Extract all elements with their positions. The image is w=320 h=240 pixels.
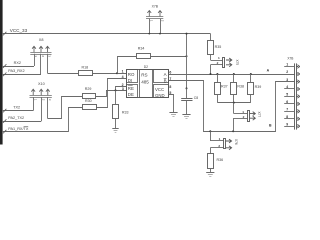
wire B from pin7 <box>169 81 295 132</box>
wire X8 pin2 down <box>40 54 42 75</box>
svg-text:A: A <box>164 72 167 77</box>
arrow X7B pin 8 <box>296 117 300 121</box>
wire VCC_33 rail <box>2 33 211 35</box>
wire X7A pin2 to VCC rail <box>160 19 162 34</box>
svg-text:7: 7 <box>286 108 288 112</box>
resistor R39 <box>248 74 254 103</box>
wire RX2 <box>2 66 34 68</box>
wire X10 pin3 down <box>47 97 49 118</box>
wire X7B pin 8 stub <box>284 118 294 120</box>
wire R29 left lead down to X10 pin3 run <box>48 97 83 119</box>
arrow X7B pin 1 <box>296 65 300 69</box>
junction dot VCC rail <box>186 33 188 35</box>
arrow X7B pin 3 <box>296 80 300 84</box>
svg-text:2: 2 <box>286 70 288 74</box>
connector X77 2-pin <box>233 110 255 122</box>
svg-text:X7B: X7B <box>287 57 293 61</box>
wire chip pin5 GND <box>169 95 174 113</box>
svg-text:X10: X10 <box>38 82 45 86</box>
junction dots on A rail <box>210 73 212 75</box>
junction dots on B rail <box>209 130 211 132</box>
connector X8 3-pin <box>30 46 51 57</box>
svg-text:X77: X77 <box>257 112 261 118</box>
connector X75 2-pin <box>211 56 232 68</box>
junction dots X7A on rail <box>148 33 150 35</box>
resistor R38 <box>231 74 237 103</box>
wire X10 pin2 down <box>41 97 43 121</box>
wire X8 pin3 down to RO run <box>47 54 49 74</box>
svg-text:GND: GND <box>155 93 165 98</box>
svg-text:1: 1 <box>122 69 124 73</box>
wire R34 right lead to VCC vertical <box>150 56 187 58</box>
wire X77 pin1 up to join line <box>233 103 235 114</box>
svg-text:X75: X75 <box>235 60 239 66</box>
ground R33 <box>112 128 118 130</box>
connector X10 3-pin <box>30 89 53 101</box>
svg-text:C8: C8 <box>194 96 198 100</box>
svg-text:PA3_RX2: PA3_RX2 <box>8 69 24 73</box>
wire chip pin4 DI <box>97 79 127 108</box>
wire R30 left lead down to PA1 net <box>69 108 83 132</box>
svg-text:B: B <box>164 78 167 83</box>
arrow X7B pin 9 <box>296 124 300 128</box>
wire TX2 <box>2 110 33 112</box>
wire R34 left lead down to RO <box>118 57 137 74</box>
resistor R30 <box>83 105 97 110</box>
junction dot RE-DE <box>115 89 117 91</box>
wire X7B pin 7 stub <box>284 111 294 113</box>
junction dot R34-VCC <box>186 55 188 57</box>
svg-text:R36: R36 <box>217 158 224 162</box>
resistor R35 <box>208 34 214 60</box>
wire chip pin2 RE <box>116 87 127 91</box>
wire X7B pin 4 stub <box>284 88 294 90</box>
svg-text:485: 485 <box>141 79 149 84</box>
svg-text:PA1_RX/TX: PA1_RX/TX <box>8 127 29 131</box>
junction dot VCC pin8 <box>186 87 188 89</box>
wire PA3_RX2 <box>2 74 41 76</box>
wire A rail pin6 to X7B pin2 <box>169 74 295 76</box>
wire X77 pin2 down to B rail <box>233 118 235 131</box>
svg-text:RO: RO <box>128 72 135 77</box>
svg-text:R39: R39 <box>255 85 262 89</box>
svg-text:R30: R30 <box>85 99 92 103</box>
svg-text:8: 8 <box>169 85 171 89</box>
resistor R36 <box>208 154 214 173</box>
svg-text:D2: D2 <box>144 65 148 69</box>
wire X76 pin2 down to R36 <box>210 148 212 154</box>
svg-text:X8: X8 <box>39 38 44 42</box>
connector X76 2-pin <box>210 137 231 150</box>
ground R36 <box>206 172 214 174</box>
wire RO run right to chip pin1 <box>93 73 126 75</box>
svg-text:1: 1 <box>218 56 220 60</box>
svg-text:VCC_33: VCC_33 <box>10 28 28 33</box>
wire PA1_RX/TX <box>2 131 69 133</box>
resistor R37 <box>215 74 221 103</box>
junction dot join line <box>233 102 235 104</box>
capacitor C8 <box>181 88 192 114</box>
svg-text:TX2: TX2 <box>13 106 20 110</box>
wire X10 pin1 down <box>33 97 35 111</box>
connector X7A top 2-pin <box>146 11 164 22</box>
svg-text:X76: X76 <box>234 139 238 145</box>
svg-text:R38: R38 <box>237 85 244 89</box>
wire R33 bottom lead <box>115 118 117 128</box>
resistor R33 <box>113 105 119 119</box>
svg-text:R18: R18 <box>82 65 89 69</box>
svg-text:DI: DI <box>128 78 132 83</box>
svg-text:R35: R35 <box>215 45 222 49</box>
wire X7B pin 1 stub <box>284 66 294 68</box>
wire R33 top lead <box>115 90 117 104</box>
ground C8 <box>182 114 190 116</box>
svg-text:R29: R29 <box>85 87 92 91</box>
arrow X7B pin 2 <box>296 72 300 76</box>
svg-text:VCC: VCC <box>155 87 164 92</box>
svg-text:RS: RS <box>141 73 147 78</box>
wire X7A pin1 to VCC rail <box>149 19 151 34</box>
arrow X7B pin 7 <box>296 110 300 114</box>
svg-text:RE: RE <box>128 86 134 91</box>
junction dot R34 on RO run <box>116 72 118 74</box>
svg-text:R33: R33 <box>122 110 129 114</box>
resistor R29 <box>83 94 96 99</box>
svg-text:X7B: X7B <box>152 5 159 9</box>
connector X7B 9-pin <box>295 63 297 129</box>
arrow X7B pin 4 <box>296 87 300 91</box>
resistor R18 <box>79 71 93 76</box>
svg-text:PA2_TX2: PA2_TX2 <box>8 116 24 120</box>
svg-text:R34: R34 <box>138 47 145 51</box>
IC D2 chip body <box>127 70 169 98</box>
wire X75 pin2 down to A rail <box>210 65 212 74</box>
wire X76 pin1 up to B rail <box>210 131 212 141</box>
wire VCC vertical to pin8 <box>186 34 188 89</box>
arrow X7B pin 6 <box>296 102 300 106</box>
wire R29 right lead up to DE <box>96 91 107 97</box>
wire X7B pin 9 stub <box>284 126 294 128</box>
wire RO run left <box>48 73 79 75</box>
wire X7B pin 5 stub <box>284 96 294 98</box>
resistor R34 <box>137 54 151 59</box>
ground pin5 <box>169 112 177 114</box>
svg-text:R37: R37 <box>221 85 228 89</box>
wire resistor bottoms join <box>217 102 250 104</box>
svg-text:RX2: RX2 <box>14 61 21 65</box>
arrow X7B pin 5 <box>296 95 300 99</box>
wire PA2_TX2 <box>2 121 41 123</box>
wire X7B pin 6 stub <box>284 103 294 105</box>
svg-text:3: 3 <box>286 78 288 82</box>
wire X8 pin1 down <box>34 54 36 66</box>
svg-text:DE: DE <box>128 92 134 97</box>
wire chip pin3 DE <box>106 90 126 92</box>
left border bus bar <box>0 0 3 145</box>
svg-text:6: 6 <box>169 70 171 74</box>
svg-text:5: 5 <box>286 93 288 97</box>
svg-text:9: 9 <box>286 122 288 126</box>
